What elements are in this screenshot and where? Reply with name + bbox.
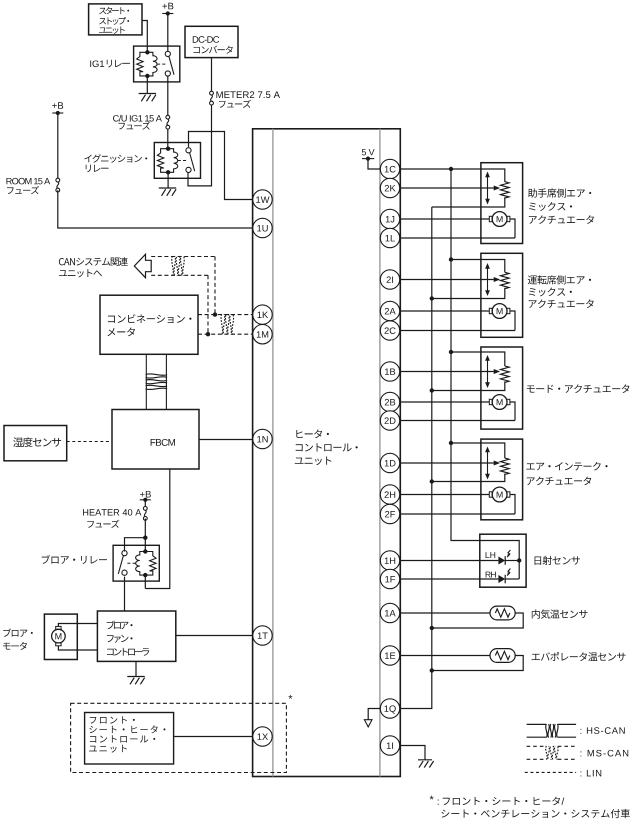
- wire blower relay switch to blower fan controller: [124, 577, 126, 611]
- pin 2K: [380, 178, 399, 197]
- wire IG1 switch to C/U IG1 fuse: [167, 76, 169, 115]
- potentiometer (driver air mix): [485, 263, 509, 296]
- legend HS-CAN: [527, 724, 625, 738]
- fuse HEATER 40 A: [83, 507, 147, 528]
- wire actuator 1 pot return: [432, 197, 505, 207]
- wire DC-DC to METER2 fuse: [211, 58, 213, 92]
- wire sensor ground bus (vertical) to pin 1Q: [400, 207, 432, 709]
- legend MS-CAN: [527, 746, 629, 760]
- wire pin 1I to ground: [400, 746, 425, 760]
- wire motor return (passenger air mix): [400, 219, 515, 238]
- wire METER2 fuse to ignition relay switch: [188, 105, 212, 186]
- wire actuator 4 pot return: [432, 474, 505, 482]
- fuse C/U IG1 15 A: [113, 115, 170, 130]
- wire seat heater unit to pin 1X: [174, 736, 253, 738]
- pin 1F: [380, 569, 399, 588]
- relay イグニッション・リレー (ignition relay): [154, 143, 200, 179]
- FBCM box: [112, 410, 199, 470]
- wire pin 1A to sensor: [400, 612, 490, 614]
- label 日射センサ: [535, 556, 580, 565]
- thermistor エバポレータ温センサ: [490, 649, 515, 663]
- wire motor return (driver air mix): [400, 311, 515, 331]
- node 5V bus junctions: [449, 167, 453, 171]
- twisted pair symbol HS-CAN (meter-FBCM): [146, 374, 168, 390]
- relay IG1リレー: [134, 46, 180, 82]
- actuator box mode: [481, 347, 523, 429]
- node ground bus junctions: [430, 296, 434, 300]
- wire blower motor to controller (upper): [58, 624, 97, 627]
- wire actuator 2 pot return: [432, 288, 505, 299]
- label IG1リレー: [90, 60, 130, 68]
- wire MS-CAN vertical drops: [214, 257, 216, 315]
- node junction on 1K line: [213, 312, 217, 316]
- wire fuse to blower relay: [144, 519, 146, 553]
- wire motor feed (passenger air mix): [400, 218, 489, 220]
- photodiode LH: [486, 550, 511, 565]
- potentiometer (passenger air mix): [485, 172, 509, 205]
- pin 1Q: [380, 699, 399, 718]
- wire motor feed (driver air mix): [400, 310, 489, 312]
- wire LIN 湿度センサ to FBCM: [67, 441, 112, 443]
- ground (1I): [418, 760, 434, 768]
- wire FBCM to pin 1N: [199, 439, 253, 441]
- wire +B to HEATER fuse: [144, 500, 146, 507]
- wire photodiode cathodes to 5V bus: [505, 560, 519, 562]
- node branch to relay switch: [143, 536, 147, 540]
- wire 5V feed to actuator 4: [451, 443, 505, 458]
- ground (blower controller): [127, 677, 144, 685]
- DC-DC converter box DC-DCコンバータ: [185, 26, 238, 57]
- wire wiper (mode): [400, 371, 494, 373]
- motor M (driver air mix): [489, 304, 510, 319]
- label エア・インテーク・アクチュエータ: [526, 462, 607, 485]
- pin 1E: [380, 646, 399, 665]
- label エバポレータ温センサ: [532, 652, 626, 661]
- footnote *: front seat heater / seat ventilation system: [430, 796, 630, 818]
- blower fan controller box ブロア・ファン・コントローラ: [97, 611, 175, 661]
- photodiode RH: [486, 569, 511, 584]
- twisted pair symbol MS-CAN (upper): [172, 256, 185, 276]
- motor M (mode): [489, 395, 510, 410]
- wire MS-CAN メータ to pin 1K: [198, 314, 253, 316]
- label イグニッション・リレー: [84, 154, 147, 172]
- legend LIN: [525, 770, 601, 776]
- actuator box passenger air mix: [481, 163, 523, 244]
- pin 1L: [380, 228, 399, 247]
- wire IG1 coil to ground: [146, 76, 148, 94]
- blower motor box ブロア・モータ: [44, 614, 77, 659]
- twisted pair symbol MS-CAN (1K/1M): [221, 314, 234, 334]
- wire pin 1H to LH: [400, 560, 498, 562]
- pin 1A: [380, 603, 399, 622]
- wire sensor return to ground bus: [432, 613, 523, 628]
- wire wiper (driver air mix): [400, 279, 494, 281]
- wire sensor return to ground bus: [432, 656, 523, 671]
- wire motor return (mode): [400, 402, 515, 421]
- pin 2F: [380, 504, 399, 523]
- wire blower motor to controller (lower): [58, 646, 97, 650]
- label 内気温センサ: [532, 609, 588, 618]
- pin 2H: [380, 485, 399, 504]
- pin 1K: [253, 305, 272, 324]
- battery +B supply (HEATER): [140, 491, 151, 502]
- pin 1U: [253, 218, 272, 237]
- pin 2B: [380, 392, 399, 411]
- wire motor return (air intake): [400, 495, 515, 515]
- pin 1J: [380, 209, 399, 228]
- wire MS-CAN dashed pair to arrow: [151, 256, 215, 258]
- motor M (air intake): [489, 487, 510, 502]
- label ブロア・リレー: [42, 555, 107, 564]
- wire HS-CAN pair メータ to FBCM: [145, 354, 147, 409]
- pin 2C: [380, 321, 399, 340]
- sun sensor box 日射センサ: [480, 534, 526, 587]
- humidity sensor box 湿度センサ: [4, 426, 67, 461]
- actuator box air intake: [481, 439, 523, 520]
- fuse METER2 7.5 A: [210, 91, 280, 108]
- wire +B to IG1 relay switch: [167, 14, 169, 52]
- potentiometer (mode): [485, 355, 509, 388]
- motor M (passenger air mix): [489, 212, 510, 227]
- pin 1H: [380, 551, 399, 570]
- wire 5V feed to actuator 2: [451, 260, 505, 273]
- wire pin 1F to RH: [400, 578, 498, 580]
- wire wiper (passenger air mix): [400, 187, 494, 189]
- ground (ignition relay): [159, 188, 176, 196]
- actuator box driver air mix: [481, 253, 523, 337]
- potentiometer (air intake): [485, 447, 509, 480]
- wire controller to pin 1T: [176, 635, 253, 637]
- wire 5V bus (vertical) from 1C to sun sensor: [400, 169, 505, 182]
- pin 2I: [380, 270, 399, 289]
- pin 2A: [380, 301, 399, 320]
- pin 1M: [253, 325, 272, 344]
- front seat heater control unit box フロント・シート・ヒータ・コントロール・ユニット: [85, 713, 174, 765]
- pin 1N: [253, 429, 272, 448]
- heater control unit ヒータ・コントロール・ユニット: [253, 129, 401, 777]
- relay ブロア・リレー (blower relay): [113, 545, 159, 581]
- pin 1D: [380, 453, 399, 472]
- optional equipment dashed box (*): [71, 695, 293, 773]
- wire ignition relay coil to ground: [167, 172, 169, 188]
- pin 2D: [380, 411, 399, 430]
- wire motor feed (mode): [400, 401, 489, 403]
- battery +B supply (top): [162, 3, 173, 16]
- label 助手席側エア・ミックス・アクチュエータ: [528, 188, 594, 223]
- wire controller to ground: [135, 661, 137, 676]
- label ブロア・モータ: [3, 628, 33, 649]
- pin 1W: [253, 190, 272, 209]
- wire wiper (air intake): [400, 462, 494, 464]
- thermistor 内気温センサ: [490, 606, 515, 620]
- wire pin 1E to sensor: [400, 655, 490, 657]
- wire motor feed (air intake): [400, 494, 489, 496]
- fuse ROOM 15 A: [6, 178, 59, 194]
- wire FBCM to blower relay coil: [145, 469, 170, 589]
- off-page arrow CANシステム関連ユニットへ: [59, 254, 151, 277]
- pin 1T: [253, 626, 272, 645]
- wire fuse to ignition relay coil: [167, 129, 169, 148]
- 5 V supply: [362, 149, 375, 161]
- pin 1B: [380, 362, 399, 381]
- pin 1I: [380, 736, 399, 755]
- wire pin 1Q off-page: [368, 709, 380, 720]
- ground (IG1 relay): [139, 94, 156, 102]
- wire 5V feed to actuator 3: [451, 352, 505, 366]
- wire actuator 3 pot return: [432, 381, 505, 390]
- off-page arrow (down, at 1Q): [364, 720, 372, 727]
- label モード・アクチュエータ: [527, 384, 630, 393]
- combination meter box コンビネーション・メータ: [100, 295, 198, 354]
- node junction on 1M line: [206, 332, 210, 336]
- pin 1X: [253, 727, 272, 746]
- wire start-stop unit to IG1 relay coil: [142, 21, 147, 53]
- wire +B through ROOM fuse to pin 1U: [57, 113, 59, 178]
- wire ignition relay switch to pin 1W: [189, 132, 253, 200]
- wire MS-CAN メータ to pin 1M: [198, 333, 253, 335]
- wire 5V to pin 1C: [368, 159, 380, 169]
- label 運転席側エア・ミックス・アクチュエータ: [528, 275, 594, 308]
- pin 1C: [380, 159, 399, 178]
- battery +B supply (ROOM): [52, 102, 63, 115]
- start-stop unit box スタート・ストップ・ユニット: [89, 4, 142, 35]
